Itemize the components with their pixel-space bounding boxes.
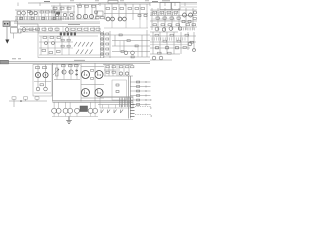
wire D low v3: [139, 20, 141, 28]
capacitor C16: [53, 17, 55, 19]
wire A1: [16, 10, 18, 20]
capacitor C10: [163, 17, 166, 19]
resistor R29: [50, 37, 54, 39]
wire R h2: [150, 41, 196, 43]
wire R v2: [159, 32, 161, 54]
resistor R30: [57, 37, 61, 39]
wire out v3: [65, 113, 67, 117]
wire P h1: [34, 81, 51, 83]
resistor R70: [137, 99, 140, 101]
diode D15: [75, 70, 78, 72]
power transistor Q30 lead: [83, 72, 85, 76]
wire mid v5: [119, 41, 121, 52]
resistor Rr6: [71, 28, 75, 30]
wire E x1: [181, 3, 197, 5]
node tick T1: [70, 0, 74, 2]
wire E-h3: [150, 20, 197, 22]
wire bus2: [0, 62, 150, 64]
diode D6: [76, 50, 79, 55]
wire drop D4: [79, 3, 81, 7]
resistor R14: [120, 8, 124, 10]
capacitor C20: [36, 87, 40, 91]
wire box h4: [39, 54, 103, 56]
resistor R13: [113, 8, 117, 10]
transistor Q17: [178, 27, 181, 30]
label tick bus1: [12, 58, 16, 60]
capacitor C8: [144, 15, 147, 17]
wire mid v3: [141, 35, 143, 57]
resistor R65: [131, 66, 134, 68]
transistor Q9: [106, 17, 110, 21]
wire bl v3: [36, 99, 38, 101]
label specks row2: [68, 24, 80, 26]
capacitor C25: [116, 91, 119, 93]
dashed wire 2: [135, 114, 151, 116]
wire col v1: [100, 31, 102, 58]
wire clusterA bot: [15, 19, 62, 21]
arrow head (input): [5, 40, 9, 44]
wire C3: [91, 5, 93, 20]
emitter resistor R58: [91, 78, 94, 80]
power transistor Q32 lead: [83, 90, 85, 94]
resistor R27: [192, 24, 196, 26]
wire arrow stem: [6, 27, 8, 40]
wire box v5: [68, 36, 70, 55]
transistor Q18: [45, 42, 48, 45]
wire row2 h2: [20, 31, 100, 33]
power transistor Q31 lead: [97, 72, 99, 76]
wire row2 h1: [20, 26, 100, 28]
power transistor Q33 (TO-3): [95, 89, 103, 97]
power transistor Q31 (TO-3): [95, 71, 103, 79]
resistor R60: [112, 66, 115, 68]
amplifier block box: [38, 33, 104, 58]
resistor R53: [40, 84, 44, 86]
wire ladder v2: [129, 76, 131, 119]
resistor R3: [46, 11, 50, 13]
resistor R7: [60, 7, 64, 9]
wire left h2: [21, 29, 38, 31]
transistor Q22: [152, 56, 156, 60]
clusterE hatch2: [152, 18, 174, 20]
wire stem 2b: [69, 102, 71, 108]
transistor Q26 lead: [37, 74, 38, 75]
resistor Rr3: [42, 28, 46, 30]
transistor Q16: [169, 27, 173, 31]
resistor R39: [119, 34, 122, 36]
transistor Q15: [155, 27, 159, 31]
node tick b2: [145, 86, 147, 88]
jumper tab J5: [71, 33, 73, 36]
wire PT v2: [94, 63, 96, 101]
wire A11: [51, 10, 53, 20]
wire Q v5: [118, 64, 120, 76]
wire row2 v10: [81, 27, 83, 33]
wire A3: [23, 10, 25, 20]
resistor R40: [127, 40, 130, 42]
potentiometer VR1 wiper: [53, 69, 59, 75]
power transistor Q32 (TO-3): [82, 89, 90, 97]
capacitor C31: [188, 21, 191, 23]
resistor R15: [128, 8, 132, 10]
resistor R8: [67, 7, 71, 9]
clusterE hatch1: [151, 12, 176, 15]
resistor R64: [126, 66, 129, 68]
wire out v1: [53, 113, 55, 117]
resistor R62: [112, 71, 115, 73]
resistor R48: [185, 34, 189, 36]
node tick T2: [95, 0, 99, 2]
wire row2 v12: [93, 27, 95, 33]
wire E1: [151, 8, 153, 30]
diode D7: [81, 50, 84, 55]
wire E6: [185, 8, 187, 30]
wire drop D1: [17, 3, 19, 7]
resistor R33: [57, 51, 61, 53]
power transistor Q30 pins: [84, 74, 85, 75]
wire box v2: [47, 36, 49, 55]
wire Q h2: [104, 69, 116, 71]
transistor Q5b: [70, 13, 73, 16]
wire P v3: [56, 64, 58, 79]
wire R v4: [173, 32, 175, 54]
dashed wire 1: [135, 106, 151, 108]
connector block box: [100, 97, 133, 109]
wire B-h2: [51, 11, 75, 13]
capacitor C23: [125, 72, 128, 75]
diode D19: [114, 110, 117, 114]
connector J1 pin2: [7, 23, 9, 25]
wire D15: [132, 4, 134, 20]
wire branch 1: [130, 81, 150, 83]
wire R v6: [187, 32, 189, 50]
capacitor C18: [166, 47, 169, 49]
resistor Rr9: [91, 28, 95, 30]
wire row2 v2: [32, 27, 34, 33]
transformer T1 box: [160, 2, 171, 9]
wire row2 v4: [44, 27, 46, 33]
capacitor C19: [176, 47, 179, 49]
resistor R36: [106, 43, 109, 45]
wire D17: [146, 4, 148, 20]
node tick T4: [145, 0, 149, 2]
wire power bus1: [53, 100, 134, 102]
wire box97: [100, 97, 133, 99]
wire E-h2: [150, 15, 197, 17]
resistor Rr10: [96, 28, 100, 30]
resistor R47: [177, 40, 181, 42]
wire C2: [84, 5, 86, 20]
resistor R66: [137, 81, 140, 83]
wire P h2: [34, 92, 51, 94]
wire box v1: [40, 36, 42, 55]
wire R v3: [166, 32, 168, 54]
wire bl v1: [13, 99, 15, 107]
wire A5: [30, 10, 32, 20]
wire C-h2: [76, 18, 99, 20]
wire left v1: [37, 24, 39, 33]
wire PT h3: [81, 97, 104, 99]
transistor Q7: [77, 14, 81, 18]
potentiometer VR1: [56, 68, 59, 76]
wire mid h4: [112, 51, 150, 53]
wire E7: [192, 8, 194, 30]
fuse link 2: [130, 107, 134, 109]
bias module box: [80, 106, 88, 112]
wire out v7: [94, 113, 96, 117]
node speck r3: [151, 115, 152, 116]
resistor R63: [120, 66, 123, 68]
wire mid v2: [123, 41, 125, 52]
resistor R55: [69, 65, 73, 67]
LED D12: [101, 43, 103, 45]
resistor R23: [161, 24, 165, 26]
relay K2 box: [11, 28, 18, 34]
wire Q v4: [116, 64, 118, 76]
resistor R2: [40, 11, 44, 13]
resistor Rx1: [96, 17, 100, 19]
driver box: [112, 80, 127, 100]
output transistor pair Q34b: [56, 108, 61, 113]
diode D2: [78, 42, 81, 47]
transistor Q23: [159, 56, 163, 60]
resistor Rr5: [55, 28, 59, 30]
wire Q v3: [112, 64, 114, 76]
regulator panel box: [33, 65, 52, 97]
node tick b5: [145, 99, 147, 101]
wire mid h5: [104, 56, 150, 58]
resistor R46: [170, 34, 174, 36]
clusterE hatch3: [180, 28, 194, 31]
resistor R20: [167, 11, 171, 13]
output transistor pair Q34a: [52, 108, 57, 113]
wire hline104: [98, 104, 129, 106]
node tick T3: [120, 0, 124, 2]
jumper tab J6: [74, 33, 76, 36]
capacitor C12: [177, 17, 180, 19]
wire E2: [157, 8, 159, 30]
wire row2 v9: [75, 27, 77, 33]
wire box h2: [39, 41, 73, 43]
transistor Q3: [29, 11, 32, 14]
resistor R12: [106, 8, 110, 10]
resistor Rr8: [84, 28, 88, 30]
resistor R36b: [61, 45, 64, 47]
wire stem 1a: [53, 102, 55, 108]
wire row2 v13: [98, 27, 100, 33]
resistor R50: [168, 52, 172, 54]
wire col v3: [109, 31, 111, 58]
wire R v5: [180, 32, 182, 54]
diode D9: [90, 50, 93, 55]
LED D11: [101, 38, 103, 40]
power transistor Q31 pins: [97, 74, 98, 75]
transistor Q25: [193, 49, 196, 52]
wire stem 3a: [90, 102, 92, 108]
capacitor C24: [116, 84, 119, 86]
resistor R71a: [183, 47, 186, 49]
label above T1: [162, 0, 170, 2]
wire diode stem 4: [121, 105, 123, 109]
output transistor pair Q35b: [68, 108, 73, 113]
resistor R10: [85, 5, 89, 7]
wire drop D3: [59, 3, 61, 7]
resistor R26: [186, 24, 190, 26]
wire ladder v1: [128, 76, 130, 119]
wire P v4: [63, 64, 65, 79]
wire bl v2: [25, 99, 27, 101]
wire D16: [139, 4, 141, 20]
transistor Q5: [55, 13, 58, 16]
wire E x2: [181, 6, 197, 8]
capacitor C21: [44, 87, 48, 91]
transistor Q21: [131, 51, 135, 55]
resistor R41: [135, 45, 138, 47]
LED D14: [101, 53, 103, 55]
node speck r2: [150, 107, 151, 108]
transistor Q6: [63, 13, 66, 16]
wire out bottom: [52, 116, 98, 118]
connector J1: [3, 21, 10, 27]
resistor Rr7: [78, 28, 82, 30]
resistor R22: [153, 24, 157, 26]
transistor Q42: [162, 28, 165, 31]
diode D17: [101, 110, 104, 114]
wire B3: [67, 6, 69, 20]
wire mid h3: [112, 45, 150, 47]
resistor R37: [106, 48, 109, 50]
wire band h1: [14, 21, 100, 23]
wire box h1: [39, 35, 98, 37]
output transistor pair Q35a: [63, 108, 68, 113]
transistor Q28 bar: [62, 71, 64, 74]
wire box h3: [39, 47, 73, 49]
label bump topleft: [44, 1, 50, 3]
wire row2 v8: [69, 27, 71, 33]
wire Q v6: [123, 64, 125, 76]
resistor R24: [168, 24, 172, 26]
power transistor Q33 pins: [97, 92, 98, 93]
wire P v6: [76, 64, 78, 79]
node speck r1: [150, 99, 151, 100]
wire Q v1: [104, 64, 106, 76]
resistor Rr2: [36, 28, 40, 30]
resistor R68: [137, 90, 140, 92]
wire diode stem 2: [108, 105, 110, 109]
wire top bus: [28, 2, 197, 5]
node dot J: [20, 100, 22, 102]
wire C-h1: [76, 4, 99, 6]
IC U1 box: [97, 11, 103, 16]
wire main v-left: [52, 63, 54, 101]
transistor Q8: [83, 14, 87, 18]
wire row2 v3: [38, 27, 40, 33]
transistor Q26 (TO-39): [35, 72, 40, 77]
wire mid v1: [114, 35, 116, 46]
resistor R56: [75, 65, 79, 67]
resistor R37b: [67, 45, 70, 47]
wire D13: [118, 4, 120, 20]
LED D10: [101, 33, 103, 35]
wire E3: [164, 8, 166, 30]
wire branch 2: [130, 86, 150, 88]
diode D3: [82, 42, 85, 47]
wire band h2: [14, 23, 100, 25]
relay K1 box: [11, 21, 18, 27]
resistor R38: [106, 53, 109, 55]
transistor Q28: [62, 70, 66, 74]
wire out v5: [76, 113, 78, 117]
wire power bus2: [53, 101, 134, 103]
wire drop D9: [174, 3, 176, 7]
resistor R6: [53, 7, 57, 9]
wire R h4: [150, 53, 180, 55]
wire D low h: [104, 27, 148, 29]
label TR left: [152, 1, 158, 3]
wire clusterA top: [15, 9, 62, 11]
wire Q v7: [128, 64, 130, 76]
wire A7: [37, 10, 39, 20]
resistor R4: [51, 11, 55, 13]
resistor R31: [42, 50, 46, 52]
wire R h5: [150, 59, 172, 61]
wire P h3: [53, 63, 81, 65]
wire P v2: [45, 65, 47, 88]
resistor R72: [12, 97, 16, 99]
fuse link 3: [130, 110, 134, 112]
jumper tab J2: [60, 33, 62, 36]
wire A4: [27, 10, 29, 20]
resistor R35: [106, 38, 109, 40]
resistor R16: [135, 8, 139, 10]
wire B2: [60, 6, 62, 20]
resistor Rx2: [101, 17, 105, 19]
resistor R11: [92, 5, 96, 7]
wire R v7: [193, 32, 195, 50]
wire A13: [58, 10, 60, 20]
wire R h1: [150, 35, 196, 37]
resistor Rr1: [29, 28, 33, 30]
fuse link 5: [130, 116, 134, 118]
wire E-h4: [150, 26, 197, 28]
transistor Q14: [194, 11, 197, 14]
resistor R43: [131, 56, 134, 58]
wire R h3: [150, 47, 190, 49]
transistor Q12: [123, 17, 127, 21]
wire mid v4: [146, 30, 148, 57]
resistor R34: [106, 33, 109, 35]
wire box v3: [54, 36, 56, 55]
wire mid h2: [112, 40, 150, 42]
capacitor C22: [119, 72, 122, 75]
resistor R71b: [190, 41, 193, 43]
resistor R70: [193, 18, 196, 20]
diode D16: [75, 74, 78, 76]
resistor R61: [106, 71, 109, 73]
wire PT h1: [81, 66, 104, 68]
wire row2 v7: [62, 27, 64, 33]
transistor Q8b: [90, 15, 94, 19]
connector J1 pin1: [4, 23, 6, 25]
wire D11: [104, 4, 106, 20]
wire mid h1: [104, 34, 150, 36]
terminal block left: [0, 60, 9, 64]
resistor R25: [176, 24, 180, 26]
transistor Q1: [17, 11, 21, 15]
diode D5: [90, 42, 93, 47]
component row hatch: [16, 17, 74, 20]
wire stem 2a: [65, 102, 67, 108]
